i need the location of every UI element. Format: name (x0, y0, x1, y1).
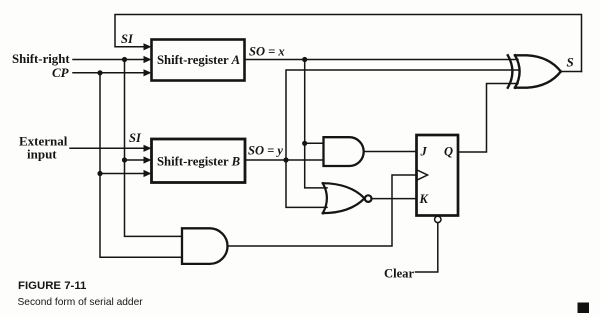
wire: bottom AND output to flip-flop clock (228, 175, 417, 246)
JK flip-flop box (417, 135, 459, 216)
wire: x branch to AND gate input 1 (305, 142, 324, 144)
wire: x vertical branch down to AND and NOR inputs (305, 60, 327, 188)
flip-flop clear bubble (435, 216, 441, 222)
NOR gate (K input) (323, 183, 372, 213)
wire: External input line to SI of register B (70, 147, 145, 149)
svg-text:Shift-right: Shift-right (12, 52, 70, 66)
wire: Clear line to flip-flop bottom bubble (416, 223, 438, 272)
shift-register A box (152, 40, 245, 81)
svg-text:Shift-register A: Shift-register A (157, 53, 240, 67)
svg-text:SI: SI (121, 32, 134, 46)
arrowhead: register A CP input (144, 69, 152, 76)
svg-text:SO = x: SO = x (249, 45, 285, 59)
svg-text:J: J (420, 145, 428, 159)
svg-text:FIGURE 7-11: FIGURE 7-11 (18, 280, 87, 292)
wire: y branch up to XOR input 2 (286, 70, 518, 160)
svg-text:Q: Q (444, 145, 453, 159)
svg-text:SO = y: SO = y (248, 144, 283, 158)
bottom AND gate (shift-right · CP clock gate) (182, 228, 228, 264)
svg-text:CP: CP (52, 65, 70, 80)
junction: register B input 2 (122, 157, 127, 162)
svg-text:K: K (419, 192, 430, 206)
wire: SO=x rail from register A to XOR (245, 59, 518, 61)
flip-flop clock chevron (418, 170, 428, 179)
junction: register B input 3 (97, 171, 102, 176)
wire: Q output of flip-flop to XOR input 3 (458, 84, 518, 153)
junction: x branch at AND input (302, 141, 307, 146)
shift-register B box (152, 139, 246, 183)
junction: shift-right line branch (122, 57, 127, 62)
arrowhead: register A shift-right input (144, 56, 152, 63)
wire: S output from XOR (561, 71, 582, 73)
wire: CP vertical branch down to register B and bottom AND gate (100, 73, 182, 257)
svg-text:Clear: Clear (384, 267, 414, 281)
end-of-figure marker square (578, 303, 590, 314)
wire: AND output to J input of flip-flop (364, 151, 417, 153)
svg-text:SI: SI (129, 131, 142, 145)
junction: CP line branch (97, 70, 102, 75)
XOR gate (sum S) (508, 55, 561, 87)
wire: register B third input from CP branch (100, 173, 145, 175)
wire: NOR output to K input of flip-flop (372, 198, 417, 200)
junction: y rail branch (283, 157, 288, 162)
arrowhead: register B SI input (144, 145, 152, 152)
wire: CP input line to register A (73, 72, 145, 74)
junction: x rail branch (302, 57, 307, 62)
wire: SO=y rail from register B to AND gate input 2 (245, 159, 324, 161)
wire: register B second input from shift-right branch (125, 159, 146, 161)
arrowhead: register B input 2 (144, 156, 152, 163)
arrowhead: register A SI input (144, 43, 152, 50)
arrowhead: register B input 3 (144, 170, 152, 177)
svg-text:Second form of serial adder: Second form of serial adder (18, 297, 144, 308)
svg-text:Shift-register B: Shift-register B (157, 155, 240, 169)
AND gate (J input, x·y) (324, 137, 364, 166)
wire: Shift-right input line to register A (73, 59, 145, 61)
wire: feedback from S up, across top, down to SI of register A (115, 15, 582, 72)
wire: shift-right vertical branch down to register B and bottom AND gate (125, 60, 183, 237)
svg-text:input: input (27, 147, 57, 162)
wire: y branch down to NOR gate input 2 (286, 160, 327, 207)
svg-text:S: S (567, 55, 574, 70)
